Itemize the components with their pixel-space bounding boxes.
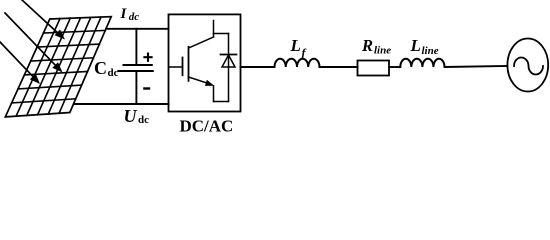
svg-text:f: f [302,46,307,60]
diode branch wire [228,34,230,102]
PV panel grid row 4 [24,72,87,75]
connector top (collector to diode) [214,33,229,35]
svg-text:dc: dc [138,114,149,126]
AC grid source circle [507,39,548,92]
IGBT emitter diagonal [189,77,208,83]
wire: Lline to grid source [445,66,508,67]
PV panel grid row 6 [12,99,76,103]
resistor Rline [358,61,390,76]
capacitor Cdc top plate [124,64,152,66]
svg-text:C: C [94,58,107,78]
IGBT emitter vertical [213,86,215,102]
DC/AC inverter box [169,14,241,111]
PV panel grid column 4 [48,18,90,115]
PV panel grid column 3 [38,18,81,115]
IGBT emitter arrowhead [205,80,214,86]
minus sign [143,87,150,89]
PV panel grid row 3 [31,58,94,61]
PV panel grid column 2 [27,18,71,115]
wire: panel top to inverter [106,28,169,30]
diode cathode bar [221,54,237,56]
capacitor Cdc top lead [135,29,137,65]
PV panel outline [5,17,111,117]
PV panel grid column 1 [16,19,60,117]
svg-text:I: I [120,6,128,22]
svg-text:R: R [361,36,373,55]
diode triangle [222,55,235,67]
svg-text:DC/AC: DC/AC [180,117,234,135]
PV panel grid row 1 [43,30,105,33]
wire: Rline to Lline [389,66,400,68]
sun ray 1 [22,0,59,34]
wire: panel bottom to inverter [74,103,169,105]
sun ray 3 [0,42,34,78]
IGBT collector diagonal [189,37,214,48]
IGBT gate bar [182,58,184,76]
PV panel grid row 2 [37,44,99,47]
capacitor Cdc bottom plate [118,70,152,72]
IGBT body bar [188,47,190,81]
wire: inverter to Lf [241,66,275,68]
svg-text:dc: dc [108,67,119,79]
inductor Lline [400,59,444,67]
svg-text:line: line [374,45,391,57]
connector bottom (emitter to diode) [214,101,229,103]
svg-text:L: L [410,36,421,55]
capacitor Cdc bottom lead [135,71,137,104]
svg-text:L: L [290,36,301,55]
IGBT collector vertical [213,21,215,38]
inductor Lf [275,59,320,67]
AC source sine wave [514,58,543,75]
sun ray 3 arrowhead [30,74,40,84]
plus sign [143,53,152,62]
wire: Lf to Rline [320,66,358,68]
sun ray 2 [5,13,57,67]
PV panel grid row 5 [18,85,82,89]
svg-text:line: line [422,45,439,57]
svg-text:dc: dc [129,11,140,23]
IGBT gate lead [169,66,183,68]
svg-text:U: U [124,106,138,126]
PV panel grid column 5 [59,17,101,113]
sun ray 2 arrowhead [52,62,62,72]
sun ray 1 arrowhead [55,30,65,40]
